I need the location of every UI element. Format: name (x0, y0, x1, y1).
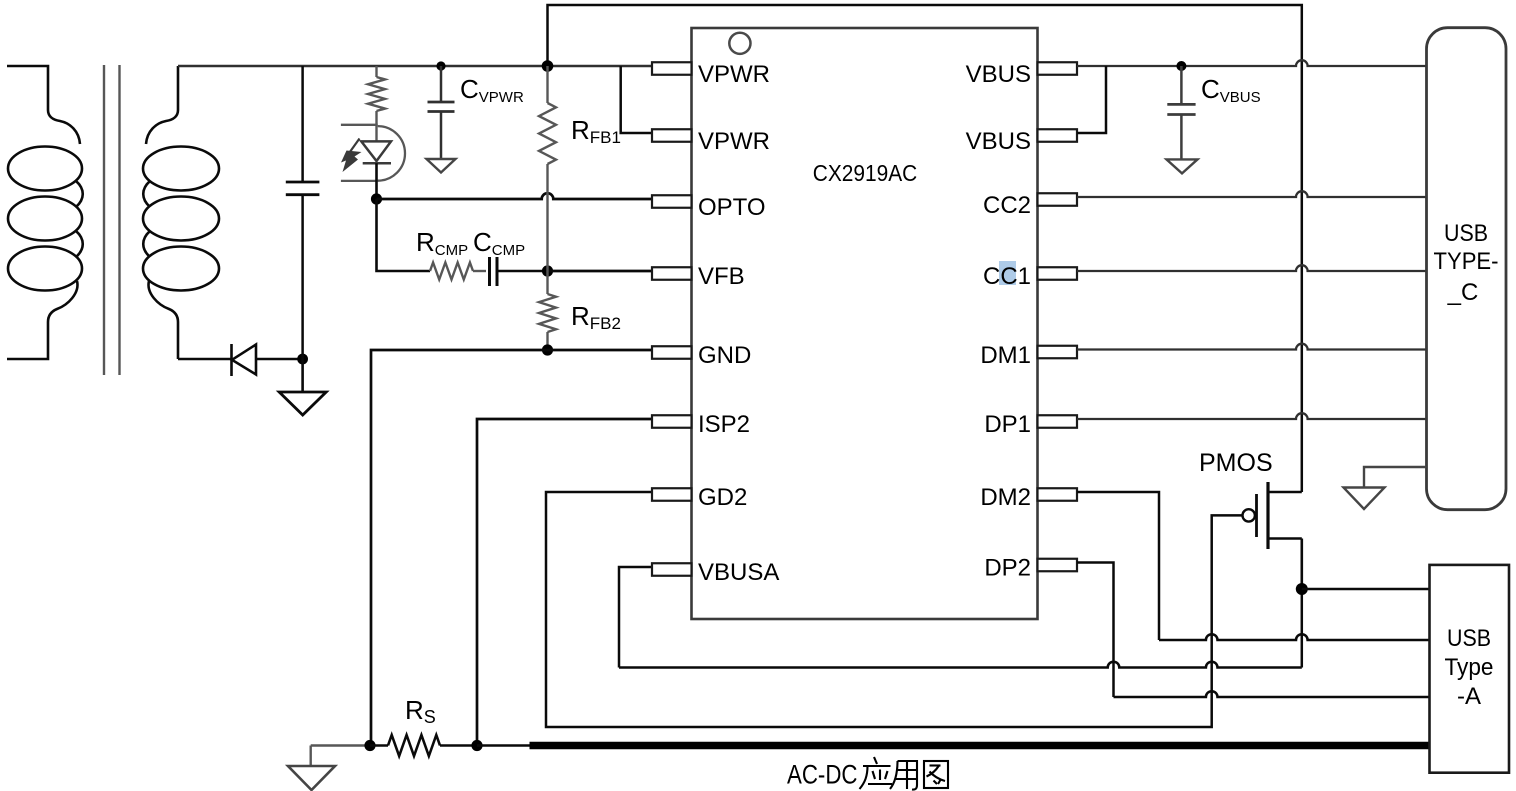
wire ISP2 line (477, 419, 653, 746)
transformer T1 core (103, 65, 105, 375)
wire OPTO line (377, 193, 653, 199)
pin CC2 box (1038, 193, 1078, 206)
pin DM1 box (1038, 346, 1078, 359)
resistor opto series (368, 77, 385, 111)
pin VPWR2 box (652, 129, 692, 142)
wire VBUSA to PMOS source (619, 662, 1302, 668)
wire PMOS source to Type-A (1302, 588, 1430, 590)
svg-text:GND: GND (698, 342, 751, 369)
resistor RS (370, 744, 388, 747)
node VFB (542, 265, 553, 276)
pin ISP2 box (652, 415, 692, 428)
node RS right (471, 740, 482, 751)
wire DM1 line (1077, 344, 1427, 350)
wire gnd left (311, 744, 370, 746)
wire VBUSA line (619, 567, 653, 668)
resistor RFB1 (546, 66, 548, 103)
svg-text:VPWR: VPWR (698, 128, 770, 155)
svg-text:TYPE-: TYPE- (1434, 248, 1499, 275)
diode D1 (178, 358, 231, 361)
pin VPWR1 box (652, 62, 692, 75)
svg-text:USB: USB (1447, 625, 1491, 652)
svg-text:DP1: DP1 (984, 411, 1031, 438)
pin CC1 box (1038, 267, 1078, 280)
svg-text:PMOS: PMOS (1199, 449, 1273, 477)
svg-text:DM2: DM2 (980, 484, 1031, 511)
wire VFB line (548, 270, 653, 273)
wire VBUS line (1077, 60, 1427, 66)
svg-text:_C: _C (1447, 279, 1479, 306)
svg-text:RS: RS (405, 695, 436, 727)
wire CC2 line (1077, 191, 1427, 197)
svg-text:RCMP: RCMP (416, 227, 468, 259)
wire DP2 line (1077, 563, 1114, 698)
wire CC1 line (1077, 265, 1427, 271)
capacitor output filter (301, 66, 304, 182)
ground (CVPWR) (427, 159, 456, 173)
capacitor CVPWR (440, 66, 443, 102)
node opto (371, 193, 382, 204)
svg-text:OPTO: OPTO (698, 194, 766, 221)
pin DP1 box (1038, 415, 1078, 428)
optocoupler U2 body arc (378, 126, 405, 181)
wire VBUS2 branch (1077, 66, 1106, 133)
svg-text:VBUSA: VBUSA (698, 559, 779, 586)
svg-text:VBUS: VBUS (966, 128, 1031, 155)
pin GD2 box (652, 488, 692, 501)
wire resistor to LED (375, 111, 377, 141)
pin DM2 box (1038, 488, 1078, 501)
svg-text:RFB1: RFB1 (571, 115, 621, 147)
svg-text:Type: Type (1445, 654, 1494, 681)
svg-text:CVBUS: CVBUS (1201, 74, 1261, 106)
label title 应 (860, 757, 893, 789)
optocoupler light arrow (350, 139, 360, 153)
ground (CVBUS) (1167, 159, 1198, 173)
wire opto node down to compensation (377, 199, 431, 271)
svg-text:CC2: CC2 (983, 192, 1031, 219)
node VPWR RFB1 (542, 60, 554, 72)
node VBUS CVBUS (1176, 61, 1186, 71)
pin DP2 box (1038, 559, 1078, 572)
highlight CC1 (999, 261, 1016, 285)
svg-text:CCMP: CCMP (473, 227, 525, 259)
connector USB Type-A (1430, 565, 1510, 773)
resistor RCMP (430, 263, 473, 280)
svg-text:CC1: CC1 (983, 263, 1031, 290)
ground (secondary) (279, 392, 326, 415)
connector USB TYPE-C (1427, 28, 1507, 510)
svg-text:DP2: DP2 (984, 555, 1031, 582)
svg-text:CVPWR: CVPWR (460, 74, 524, 106)
wire GD2 line (546, 492, 1243, 727)
node PMOS source (1296, 583, 1308, 595)
node diode output (297, 354, 308, 365)
pin GND box (652, 346, 692, 359)
ground (RS) (310, 746, 312, 767)
node RS left (364, 740, 375, 751)
transformer T1 secondary winding (146, 66, 178, 144)
resistor RFB2 (546, 271, 548, 294)
svg-text:ISP2: ISP2 (698, 411, 750, 438)
svg-text:VBUS: VBUS (966, 61, 1031, 88)
transformer T1 primary winding (7, 66, 80, 144)
pin VFB box (652, 267, 692, 280)
svg-text:DM1: DM1 (980, 342, 1031, 369)
svg-text:VPWR: VPWR (698, 61, 770, 88)
pin VBUS1 box (1038, 62, 1078, 75)
wire RCMP to CCMP (473, 270, 486, 272)
pin VBUS2 box (1038, 129, 1078, 142)
wire GND line (371, 350, 653, 746)
wire top loop (VPWR node to PMOS drain) (548, 5, 1302, 492)
pin OPTO box (652, 195, 692, 208)
node VPWR C_VPWR (436, 61, 445, 70)
wire DM2 line (1077, 492, 1159, 640)
label title 图 (924, 761, 948, 788)
wire LED cathode to node (375, 163, 378, 199)
wire GND bus (thick) (530, 742, 1430, 750)
label title 用 (890, 761, 917, 790)
svg-text:RFB2: RFB2 (571, 301, 621, 333)
node GND RFB2 (542, 344, 553, 355)
capacitor CCMP (488, 257, 491, 286)
svg-text:GD2: GD2 (698, 484, 747, 511)
svg-text:USB: USB (1444, 220, 1488, 247)
ground (Type-C) (1344, 488, 1385, 510)
capacitor CVBUS (1180, 66, 1183, 104)
optocoupler U2 LED (361, 141, 391, 161)
svg-text:AC-DC: AC-DC (787, 760, 858, 790)
wire DP1 line (1077, 413, 1427, 419)
svg-text:-A: -A (1457, 683, 1481, 710)
pin VBUSA box (652, 563, 692, 576)
wire VPWR rail (178, 65, 653, 67)
IC U1 pin-1 mark (729, 33, 750, 54)
svg-text:CX2919AC: CX2919AC (813, 160, 918, 186)
svg-text:VFB: VFB (698, 263, 745, 290)
wire Type-C shield to ground (1364, 467, 1427, 488)
IC U1 CX2919AC body (692, 28, 1038, 619)
transistor PMOS Q1 (1268, 491, 1302, 494)
wire RS to GND bus (477, 744, 530, 747)
wire diode node to ground (301, 359, 304, 392)
wire opto resistor top (375, 66, 377, 77)
wire VPWR branch to pin2 (621, 66, 653, 133)
